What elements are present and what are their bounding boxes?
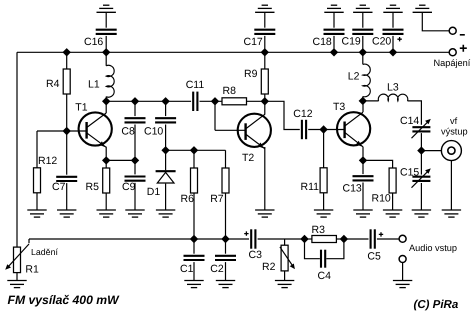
- wire R5 top lead: [105, 160, 107, 168]
- ground below C2: [216, 281, 235, 288]
- wire output node to C15: [420, 151, 422, 175]
- wire R4 top lead: [66, 52, 68, 69]
- ground below C13: [353, 210, 372, 217]
- wire varicap bias rail: [166, 149, 226, 151]
- ground below C7: [57, 210, 76, 217]
- ground below C9: [125, 210, 144, 217]
- svg-text:R6: R6: [181, 193, 195, 205]
- ground below D1: [156, 210, 175, 217]
- resistor R11: [320, 168, 327, 193]
- wire T3 emitter to R10: [363, 160, 393, 168]
- svg-text:C9: C9: [122, 181, 136, 193]
- capacitor C12: [302, 120, 306, 139]
- diode D1: [156, 171, 176, 183]
- wire C13 to ground: [362, 183, 364, 211]
- terminal audio ground: [399, 256, 406, 263]
- label plus of C5: [379, 232, 383, 236]
- resistor R10: [389, 168, 396, 193]
- svg-text:C15: C15: [400, 166, 419, 178]
- ground below R10: [383, 210, 402, 217]
- svg-text:FM vysílač 400 mW: FM vysílač 400 mW: [8, 293, 121, 307]
- label plus of supply: [460, 45, 467, 52]
- wire L2 top lead: [362, 52, 364, 64]
- wire R2 to ground: [284, 271, 286, 281]
- node rail R4: [62, 48, 70, 56]
- wire L1 top lead: [105, 52, 107, 66]
- wire C7 to ground: [66, 183, 68, 210]
- wire R5 to ground: [105, 193, 107, 210]
- node rail C18: [330, 48, 338, 56]
- svg-text:C18: C18: [313, 36, 332, 48]
- wire R3 right lead: [336, 238, 344, 240]
- capacitor C17: [254, 30, 275, 34]
- node R3 C4 left: [300, 235, 308, 243]
- svg-text:T3: T3: [333, 101, 345, 113]
- wire T2 base branch vertical: [214, 101, 216, 130]
- wire C20 ground lead: [392, 12, 394, 27]
- wire R11 top lead: [323, 130, 325, 168]
- capacitor C18: [324, 30, 345, 34]
- capacitor C9: [125, 177, 146, 181]
- ground below R11: [314, 210, 333, 217]
- label minus of supply: [460, 34, 465, 36]
- svg-text:Audio vstup: Audio vstup: [409, 243, 457, 253]
- wire C17 ground lead: [264, 12, 266, 27]
- node D1 C10: [161, 146, 169, 154]
- wire C16 ground lead: [105, 12, 107, 27]
- svg-text:R10: R10: [372, 192, 391, 204]
- wire R1 wiper stub: [28, 239, 30, 243]
- wire R1 bottom lead: [16, 273, 18, 281]
- capacitor C1: [184, 256, 205, 260]
- svg-text:C17: C17: [244, 36, 263, 48]
- wire T3 emitter vertical: [362, 147, 364, 161]
- wire C16 to rail: [105, 36, 107, 52]
- node C8 mid rail: [131, 97, 139, 105]
- svg-text:vf: vf: [450, 116, 458, 126]
- resistor R6: [191, 168, 198, 193]
- capacitor C19: [352, 30, 373, 34]
- wire audio ground terminal lead: [402, 263, 404, 281]
- wire C3 to R3 node: [258, 238, 305, 240]
- svg-text:(C) PiRa: (C) PiRa: [414, 299, 459, 311]
- terminal audio input: [399, 235, 406, 242]
- node C14 C15 vf output: [417, 146, 425, 154]
- capacitor C7: [56, 177, 77, 181]
- svg-text:T2: T2: [242, 152, 254, 164]
- ground below R1: [7, 281, 26, 288]
- resistor R12: [34, 168, 41, 193]
- label plus of C20: [397, 37, 401, 41]
- wire C11 to R8: [200, 100, 223, 102]
- wire D1 top lead: [165, 150, 167, 170]
- trimmer capacitor C15: [412, 168, 431, 187]
- wire C20 to rail: [392, 36, 394, 52]
- wire T3 collector: [362, 101, 364, 112]
- inductor L1: [106, 65, 114, 97]
- potentiometer R1: [5, 244, 29, 273]
- resistor R4: [63, 69, 70, 94]
- ground below C1: [184, 281, 203, 288]
- wire C9 to ground: [134, 183, 136, 210]
- node C8 C9 emitter: [131, 156, 139, 164]
- wire R3 left lead: [305, 238, 312, 240]
- wire L2 bottom lead: [362, 96, 364, 101]
- svg-text:L2: L2: [348, 70, 360, 82]
- ground below vf connector: [442, 210, 461, 217]
- svg-text:C14: C14: [400, 115, 419, 127]
- wire audio-tuning bottom rail: [29, 238, 249, 240]
- wire C10 top lead: [165, 101, 167, 116]
- wire C19 ground lead: [362, 12, 364, 27]
- svg-text:Ladění: Ladění: [31, 247, 58, 257]
- node C12 T3 base R11: [319, 125, 327, 133]
- node R3 C4 right: [340, 235, 348, 243]
- wire C12 link from T2 collector: [265, 101, 300, 129]
- wire C10 bottom lead: [165, 125, 167, 151]
- svg-text:L3: L3: [387, 82, 399, 94]
- wire oscillator mid rail: [106, 100, 191, 102]
- node R9 T2 collector: [261, 97, 269, 105]
- svg-text:R2: R2: [262, 261, 276, 273]
- node C2 R7 bottom: [221, 235, 229, 243]
- wire R6 top lead: [193, 150, 195, 168]
- node rail C17 R9: [261, 48, 269, 56]
- capacitor C10: [155, 118, 176, 122]
- svg-text:C19: C19: [342, 35, 361, 47]
- wire C5 to audio terminal: [377, 238, 399, 240]
- node T1 emitter R5: [102, 156, 110, 164]
- wire C15 to ground: [420, 183, 422, 210]
- svg-text:C4: C4: [318, 270, 332, 282]
- capacitor C20: [383, 30, 404, 34]
- wire C2 to ground: [225, 262, 227, 280]
- wire base node to C7: [66, 131, 68, 175]
- ground above C16: [97, 5, 116, 12]
- wire R12 horizontal: [37, 130, 67, 132]
- svg-text:R11: R11: [301, 181, 320, 193]
- label plus of C3: [244, 231, 248, 235]
- node L2 L3 T3 collector: [359, 97, 367, 105]
- inductor L3: [378, 94, 407, 101]
- wire R9 top lead: [264, 52, 266, 69]
- svg-text:C5: C5: [367, 250, 381, 262]
- terminal plus: [449, 49, 456, 56]
- terminal minus: [449, 27, 456, 34]
- wire R11 to ground: [323, 193, 325, 210]
- svg-text:C7: C7: [52, 181, 66, 193]
- inductor L2: [363, 64, 370, 97]
- node rail C16 L1: [102, 48, 110, 56]
- svg-text:C2: C2: [210, 263, 224, 275]
- wire D1 to ground: [165, 184, 167, 210]
- wire R12 vertical: [36, 131, 38, 168]
- resistor R3: [312, 236, 337, 243]
- wire output node to vf terminal: [421, 150, 441, 152]
- node R6 bias: [190, 146, 198, 154]
- wire C9 top lead: [134, 160, 136, 174]
- svg-text:C3: C3: [249, 249, 263, 261]
- svg-text:T1: T1: [75, 102, 87, 114]
- svg-text:C13: C13: [343, 183, 362, 195]
- svg-text:C20: C20: [372, 35, 391, 47]
- svg-text:R8: R8: [223, 85, 237, 97]
- svg-text:C1: C1: [180, 263, 194, 275]
- wire T1 emitter vertical: [105, 147, 107, 161]
- wire C18 to rail: [333, 36, 335, 52]
- node T3 emitter C13 R10: [359, 156, 367, 164]
- wire T2 emitter to ground: [264, 147, 266, 210]
- ground below R5: [97, 210, 116, 217]
- wire C1 top lead: [193, 239, 195, 254]
- resistor R7: [222, 168, 229, 193]
- wire C12 to T3 base: [308, 129, 344, 131]
- svg-text:R5: R5: [86, 181, 100, 193]
- ground above C19: [353, 5, 372, 12]
- svg-text:R1: R1: [25, 264, 39, 276]
- wire R7 bottom lead: [225, 193, 227, 239]
- wire C2 top lead: [225, 239, 227, 254]
- svg-text:C12: C12: [293, 108, 312, 120]
- ground below audio terminal: [393, 281, 412, 288]
- wire C19 to rail: [362, 36, 364, 52]
- svg-text:C8: C8: [121, 125, 135, 137]
- wire T1 base: [67, 130, 87, 132]
- svg-text:C10: C10: [144, 125, 163, 137]
- wire minus terminal to top ground: [422, 12, 449, 31]
- svg-text:R7: R7: [210, 193, 224, 205]
- wire L3 right lead to C14: [408, 101, 422, 125]
- wire R7 top lead: [225, 150, 227, 168]
- node T1 base R4 R12: [62, 127, 70, 135]
- wire C17 to rail: [264, 36, 266, 52]
- terminal vf output coax: [441, 141, 461, 161]
- wire left border: [16, 52, 18, 247]
- node L1 T1 collector: [102, 97, 110, 105]
- svg-text:R3: R3: [312, 224, 326, 236]
- wire C4 branch: [305, 239, 320, 259]
- wire T1 emitter to C9: [106, 159, 135, 161]
- wire top supply rail: [17, 51, 449, 53]
- wire C4 to R3 right node: [326, 239, 344, 259]
- ground above C17: [255, 5, 274, 12]
- capacitor C5: [371, 229, 375, 248]
- svg-text:L1: L1: [88, 79, 100, 91]
- node rail C20: [389, 48, 397, 56]
- transistor T3: [337, 112, 370, 147]
- svg-text:R12: R12: [38, 155, 57, 167]
- resistor R8: [222, 98, 247, 105]
- wire R4 bottom to T1 base node: [66, 94, 68, 131]
- svg-text:C16: C16: [84, 36, 103, 48]
- wire C14 to output node: [420, 133, 422, 151]
- wire R6 bottom lead: [193, 193, 195, 239]
- wire R8 to T2 collector node: [247, 100, 265, 102]
- ground below R12: [27, 210, 46, 217]
- node T2 base branch: [211, 97, 219, 105]
- svg-text:R4: R4: [46, 78, 60, 90]
- capacitor C16: [96, 30, 117, 34]
- wire L1 bottom lead: [105, 97, 107, 102]
- wire T2 base: [215, 129, 246, 131]
- svg-text:C11: C11: [186, 79, 205, 91]
- ground of minus terminal: [413, 5, 432, 12]
- ground below R2: [275, 281, 294, 288]
- capacitor C2: [215, 256, 236, 260]
- capacitor C8: [125, 118, 146, 122]
- svg-text:R9: R9: [244, 68, 258, 80]
- wire R10 to ground: [392, 193, 394, 210]
- wire R3 node to C5: [344, 238, 369, 240]
- node rail C19 L2: [359, 48, 367, 56]
- capacitor C11: [193, 92, 197, 111]
- wire C1 to ground: [193, 262, 195, 280]
- trimmer capacitor C14: [412, 119, 431, 138]
- capacitor C4: [321, 250, 325, 268]
- svg-text:výstup: výstup: [441, 127, 468, 137]
- node C10 mid rail: [161, 97, 169, 105]
- wire C8 top lead: [134, 101, 136, 116]
- ground above C20: [383, 5, 402, 12]
- capacitor C3: [251, 229, 255, 248]
- wire vf connector shield to ground: [450, 161, 452, 210]
- ground above C18: [324, 5, 343, 12]
- transistor T1: [79, 112, 112, 147]
- ground below T2 emitter: [255, 210, 274, 217]
- wire T1 collector vertical: [105, 101, 107, 113]
- transistor T2: [238, 114, 271, 149]
- ground below C15: [412, 210, 431, 217]
- wire C8 bottom lead: [134, 125, 136, 161]
- svg-text:D1: D1: [147, 186, 161, 198]
- resistor R9: [261, 69, 268, 94]
- wire C13 top lead: [362, 160, 364, 174]
- wire C18 ground lead: [333, 12, 335, 27]
- capacitor C13: [353, 176, 374, 180]
- wire T2 collector: [264, 101, 266, 114]
- svg-text:Napájení: Napájení: [434, 58, 471, 68]
- wire R2 top lead: [284, 239, 286, 245]
- wire L3 left lead: [363, 100, 379, 102]
- wire R12 to ground: [36, 193, 38, 210]
- node C1 R6 bottom: [190, 235, 198, 243]
- potentiometer R2: [280, 245, 295, 271]
- resistor R5: [103, 168, 110, 193]
- wire R9 bottom lead: [264, 94, 266, 101]
